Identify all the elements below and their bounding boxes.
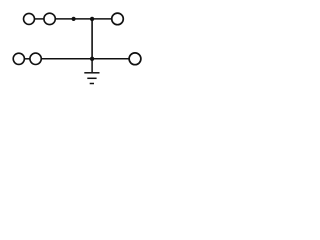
junction dot (bottom bus at vertical wire) — [90, 57, 94, 61]
terminal circle 2 (top-left inner) — [44, 13, 55, 24]
wire (bottom bus) — [41, 58, 128, 60]
wire (vertical, top bus to bottom bus) — [91, 19, 93, 59]
terminal circle 4 (bottom-left) — [13, 53, 24, 64]
ground (earth symbol) — [84, 59, 99, 84]
terminal circle 1 (top-left) — [24, 13, 35, 24]
junction dot (top bus at vertical wire) — [90, 17, 94, 21]
wire (terminal 1 to terminal 2) — [35, 18, 44, 20]
terminal circle 3 (top-right) — [112, 13, 124, 25]
wire (terminal 4 to terminal 5) — [25, 58, 30, 60]
terminal circle 6 (bottom-right) — [129, 53, 141, 65]
junction dot (top bus left) — [72, 17, 76, 21]
terminal circle 5 (bottom-left inner) — [30, 53, 41, 64]
wire (top bus) — [55, 18, 111, 20]
